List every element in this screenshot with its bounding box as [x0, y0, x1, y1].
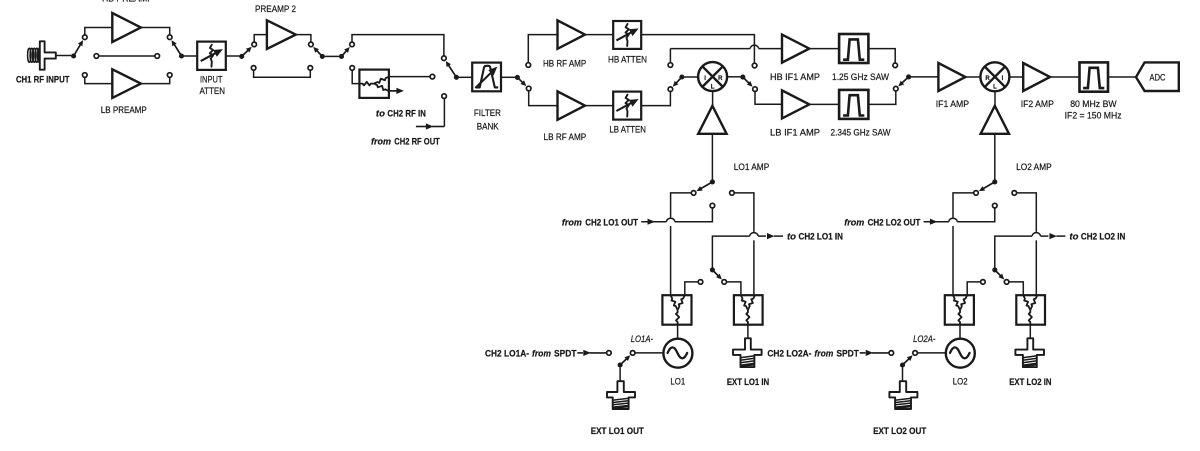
- wire LB IF1 feed: [755, 91, 782, 104]
- switch S2 throw HB: [167, 35, 172, 40]
- ADC converter: [1136, 62, 1179, 91]
- switch S2b arm: [995, 270, 1002, 277]
- switch S1b common node: [710, 267, 715, 272]
- switch S3 throw amp: [252, 42, 257, 47]
- switch S5 throw CH2 split: [350, 66, 355, 71]
- wire S2b to splitter B: [1009, 282, 1023, 295]
- wire preamp2 input: [254, 35, 266, 43]
- wire atten to S3: [226, 55, 240, 57]
- svg-text:LO2A-: LO2A-: [913, 334, 935, 345]
- switch S6 throw main: [442, 56, 447, 61]
- svg-text:INPUT: INPUT: [200, 75, 223, 86]
- svg-text:R: R: [985, 76, 990, 82]
- attenuator HB ATTEN: [613, 21, 641, 49]
- switch S6 throw from CH2: [442, 94, 447, 99]
- wire LB preamp input: [85, 77, 112, 83]
- wire preamp2 output: [296, 35, 311, 43]
- switch S1a throw from CH2: [710, 203, 715, 208]
- switch S10 common node: [906, 74, 911, 79]
- attenuator LB ATTEN: [613, 92, 641, 120]
- amplifier IF1 AMP: [938, 63, 965, 91]
- switch S2a throw to CH2: [1012, 191, 1017, 196]
- wire from CH2 RF OUT riser: [443, 98, 445, 126]
- svg-text:HB ATTEN: HB ATTEN: [608, 55, 647, 66]
- svg-text:SPDT: SPDT: [836, 349, 859, 360]
- amplifier LO1 AMP: [698, 106, 726, 134]
- oscillator LO2: [946, 339, 975, 368]
- wire HB preamp input: [85, 28, 112, 35]
- svg-text:to: to: [787, 232, 796, 243]
- wire HB atten output run: [641, 35, 754, 64]
- wire S1b to splitter B: [727, 282, 741, 295]
- switch S1 arm: [74, 44, 81, 56]
- switch S6 arm: [448, 64, 456, 77]
- wire IF2 amp to SAW3: [1050, 76, 1080, 78]
- switch S2 throw bypass: [155, 54, 160, 59]
- wire main top run to filter switch: [352, 35, 444, 56]
- wire splitter B to EXT LO1 IN: [747, 325, 749, 339]
- wire splitter input: [352, 70, 359, 83]
- wire to CH2 LO2 IN: [995, 236, 1032, 267]
- wire to input atten: [184, 55, 197, 57]
- svg-text:ADC: ADC: [1150, 73, 1166, 84]
- mixer U1 first mixer: [698, 62, 727, 91]
- switch S1 throw bypass: [94, 54, 99, 59]
- svg-text:ATTEN: ATTEN: [199, 86, 225, 97]
- switch S8 throw HB: [668, 63, 673, 68]
- switch S10 arm: [901, 77, 908, 84]
- filter FL3 IF2 SAW: [1080, 62, 1109, 91]
- svg-text:CH1 RF INPUT: CH1 RF INPUT: [16, 74, 70, 85]
- switch S1a arm: [700, 182, 712, 189]
- wire S2b to splitter A: [967, 282, 980, 295]
- arrow from CH2 RF OUT: [416, 126, 427, 128]
- switch S1 common node: [71, 53, 76, 58]
- attenuator INPUT ATTEN: [197, 42, 226, 70]
- wire IF1 amp to mixer2: [965, 76, 980, 78]
- splitter LO1 A: [662, 295, 691, 325]
- wire HB IF1 feed: [669, 49, 671, 63]
- switch S2c common node: [900, 362, 905, 367]
- switch S1 throw LB: [83, 73, 88, 78]
- svg-text:LB IF1 AMP: LB IF1 AMP: [770, 128, 820, 139]
- svg-text:IF2 AMP: IF2 AMP: [1021, 99, 1054, 110]
- wire LB preamp output: [141, 77, 170, 83]
- switch S9 throw HB: [752, 63, 757, 68]
- wire bypass 2: [254, 70, 311, 77]
- arrow to CH2 RF IN: [389, 90, 398, 92]
- switch S1b throw splitter B: [722, 280, 727, 285]
- svg-text:LO1 AMP: LO1 AMP: [734, 162, 770, 173]
- switch S5 arm: [342, 50, 348, 56]
- wire filter bank output: [501, 76, 515, 78]
- wire mixer2 LO port: [994, 91, 996, 105]
- amplifier LO2 AMP: [981, 106, 1009, 134]
- filter FL1 1.25 GHz SAW: [839, 34, 868, 63]
- svg-text:from: from: [371, 136, 391, 147]
- amplifier HB RF AMP: [558, 20, 586, 48]
- svg-text:EXT LO1 IN: EXT LO1 IN: [727, 377, 769, 388]
- switch S4 throw bypass: [308, 66, 313, 71]
- wire HB preamp output: [141, 28, 170, 35]
- switch S2c throw osc: [913, 351, 918, 356]
- wire LO2 internal branch: [953, 193, 974, 218]
- svg-text:LO1: LO1: [670, 376, 685, 387]
- amplifier PREAMP 2: [267, 20, 296, 49]
- arrow CH2 LO1A- from SPDT: [577, 352, 583, 354]
- wire S1c to EXT LO1 OUT: [619, 367, 621, 381]
- switch S2b throw splitter B: [1004, 280, 1009, 285]
- svg-text:LB RF AMP: LB RF AMP: [544, 132, 587, 143]
- switch S1c throw CH2: [607, 351, 612, 356]
- switch S9 arm: [743, 77, 750, 84]
- svg-text:IF2 = 150 MHz: IF2 = 150 MHz: [1065, 111, 1122, 122]
- connector EXT LO2 OUT: [889, 381, 917, 409]
- wire LO1 internal branch: [671, 193, 692, 218]
- svg-text:CH2 LO2 OUT: CH2 LO2 OUT: [868, 218, 921, 229]
- svg-text:LO1A-: LO1A-: [631, 334, 653, 345]
- wire LO2 amp input riser: [994, 134, 996, 180]
- connector J1 CH1 RF INPUT: [28, 48, 31, 62]
- svg-text:CH2 LO1 OUT: CH2 LO1 OUT: [585, 218, 638, 229]
- switch S1c throw osc: [630, 351, 635, 356]
- oscillator LO1: [663, 339, 692, 368]
- wire from CH2 LO2 OUT: [924, 221, 949, 223]
- svg-text:CH2 LO1 IN: CH2 LO1 IN: [799, 232, 844, 243]
- wire S4 to S5: [325, 55, 340, 57]
- wire mixer to S9: [727, 76, 740, 78]
- amplifier IF2 AMP: [1023, 63, 1050, 91]
- wire to filter bank: [459, 76, 473, 78]
- switch S6 throw from splitter: [430, 74, 435, 79]
- svg-text:EXT LO2 OUT: EXT LO2 OUT: [873, 426, 926, 437]
- svg-text:EXT LO1 OUT: EXT LO1 OUT: [591, 426, 644, 437]
- wire LO2 to S2c: [917, 352, 945, 354]
- wire HB amp to atten: [585, 34, 613, 36]
- amplifier LB PREAMP: [112, 69, 141, 98]
- switch S7 common node: [515, 75, 520, 80]
- svg-text:L: L: [711, 84, 715, 90]
- wire LB RF amp input: [529, 91, 558, 106]
- svg-text:IF1 AMP: IF1 AMP: [936, 99, 969, 110]
- splitter LO1 B: [734, 295, 763, 325]
- switch S1c common node: [618, 362, 623, 367]
- svg-text:from: from: [844, 218, 864, 229]
- svg-text:2.345 GHz SAW: 2.345 GHz SAW: [831, 128, 892, 139]
- switch S7 arm: [517, 77, 523, 83]
- wire from CH2 LO1 OUT: [641, 221, 666, 223]
- wire to CH2 LO1 IN: [712, 236, 749, 267]
- wire bypass 1: [99, 55, 155, 57]
- wire LO1 amp input riser: [711, 134, 713, 180]
- splitter LO2 B: [1016, 295, 1045, 325]
- svg-text:to: to: [376, 109, 385, 120]
- switch S9 common node: [740, 75, 745, 80]
- svg-text:from: from: [562, 218, 582, 229]
- amplifier HB IF1 AMP: [782, 35, 809, 63]
- switch S7 throw LB: [526, 86, 531, 91]
- svg-text:CH2 LO1A-: CH2 LO1A-: [485, 349, 529, 360]
- wire SAW2 output: [868, 91, 895, 105]
- wire LO2 to-CH2 branch: [1017, 193, 1037, 232]
- switch S1b throw splitter A: [698, 280, 703, 285]
- splitter CH2 RF power divider: [359, 70, 389, 98]
- wire HB IF1 amp to SAW: [809, 48, 839, 50]
- filter FL2 2.345 GHz SAW: [839, 90, 868, 119]
- switch S3 throw bypass: [251, 66, 256, 71]
- switch S1a throw internal: [691, 191, 696, 196]
- amplifier HB PREAMP: [112, 13, 141, 42]
- filter FILTER BANK: [472, 63, 501, 92]
- switch S1 throw HB: [83, 35, 88, 40]
- connector EXT LO1 IN: [733, 338, 762, 367]
- switch S8 arm: [675, 77, 681, 84]
- wire splitter A to LO2: [959, 325, 961, 339]
- switch S6 common node: [454, 75, 459, 80]
- switch S1c arm: [620, 358, 627, 365]
- svg-text:CH2 RF IN: CH2 RF IN: [387, 109, 426, 120]
- svg-text:80 MHz BW: 80 MHz BW: [1070, 99, 1117, 110]
- wire LB atten to S8: [641, 92, 670, 106]
- switch S2 common node: [179, 53, 184, 58]
- wire LO1 to-CH2 branch: [734, 193, 754, 232]
- amplifier LB RF AMP: [558, 91, 586, 119]
- switch S7 throw HB: [526, 63, 531, 68]
- connector EXT LO1 OUT: [607, 381, 635, 409]
- arrow to CH2 LO2 IN: [1049, 233, 1057, 239]
- wire S2c to EXT LO2 OUT: [902, 367, 904, 381]
- switch S4 arm: [316, 50, 322, 57]
- svg-text:HB IF1 AMP: HB IF1 AMP: [770, 72, 820, 83]
- wire splitter B to EXT LO2 IN: [1029, 325, 1031, 339]
- wire mixer2 to IF2 amp: [1009, 76, 1023, 78]
- svg-text:PREAMP 2: PREAMP 2: [255, 4, 296, 15]
- wire mixer1 LO port: [712, 91, 714, 105]
- wire HB RF amp input: [528, 35, 557, 63]
- arrow to CH2 LO1 IN: [767, 233, 775, 239]
- switch S10 throw HB: [893, 63, 898, 68]
- svg-text:from: from: [814, 349, 833, 360]
- svg-text:L: L: [993, 85, 997, 91]
- wire LB amp to atten: [585, 105, 613, 107]
- svg-text:LB ATTEN: LB ATTEN: [609, 125, 646, 136]
- wire LO1 to S1c: [635, 352, 663, 354]
- switch S2a throw internal: [974, 191, 979, 196]
- switch S1a throw to CH2: [730, 191, 735, 196]
- svg-text:FILTER: FILTER: [474, 108, 501, 119]
- wire S10 to IF1 amp: [911, 76, 938, 78]
- mixer U2 second mixer: [980, 62, 1009, 91]
- wire S8 to mixer: [684, 76, 698, 78]
- svg-text:LB PREAMP: LB PREAMP: [101, 105, 147, 116]
- svg-text:BANK: BANK: [477, 122, 499, 133]
- switch S3 arm: [242, 50, 249, 57]
- switch S2a arm: [982, 182, 994, 189]
- switch S5 common node: [339, 54, 344, 59]
- switch S8 throw LB: [668, 87, 673, 92]
- svg-text:1.25 GHz SAW: 1.25 GHz SAW: [832, 72, 890, 83]
- switch S2c arm: [903, 358, 910, 365]
- switch S8 common node: [679, 74, 684, 79]
- connector EXT LO2 IN: [1015, 338, 1044, 367]
- wire LB IF1 amp to SAW: [809, 103, 839, 105]
- svg-text:SPDT: SPDT: [554, 349, 577, 360]
- switch S2 throw LB: [167, 73, 172, 78]
- wire SAW1 output: [868, 49, 895, 63]
- wire splitter A to LO1: [677, 325, 679, 339]
- switch S10 throw LB: [894, 86, 899, 91]
- wire SAW3 to ADC: [1108, 76, 1136, 78]
- svg-text:LO2 AMP: LO2 AMP: [1016, 162, 1052, 173]
- arrow from CH2 LO2 OUT: [930, 219, 938, 225]
- switch S2b common node: [992, 267, 997, 272]
- svg-text:CH2 RF OUT: CH2 RF OUT: [394, 136, 440, 147]
- switch S2c throw CH2: [889, 351, 894, 356]
- switch S5 throw main: [350, 42, 355, 47]
- svg-text:EXT LO2 IN: EXT LO2 IN: [1009, 377, 1051, 388]
- switch S2a common node: [992, 179, 997, 184]
- arrow from CH2 LO1 OUT: [648, 219, 656, 225]
- switch S2b throw splitter A: [981, 280, 986, 285]
- splitter LO2 A: [945, 295, 974, 325]
- switch S4 throw amp: [309, 42, 314, 47]
- switch S4 common node: [320, 54, 325, 59]
- wire S1b to splitter A: [685, 282, 698, 295]
- svg-text:to: to: [1069, 232, 1078, 243]
- svg-text:HB RF AMP: HB RF AMP: [543, 59, 586, 70]
- amplifier LB IF1 AMP: [782, 90, 809, 118]
- switch S2a throw from CH2: [993, 203, 998, 208]
- switch S9 throw LB: [753, 87, 758, 92]
- arrow CH2 LO2A- from SPDT: [860, 352, 866, 354]
- switch S2 arm: [174, 43, 182, 56]
- svg-text:CH2 LO2 IN: CH2 LO2 IN: [1081, 232, 1126, 243]
- switch S1b arm: [712, 270, 719, 277]
- svg-text:LO2: LO2: [953, 376, 968, 387]
- switch S3 common node: [239, 54, 244, 59]
- switch S1a common node: [710, 179, 715, 184]
- svg-text:R: R: [718, 76, 723, 82]
- svg-text:HB PREAMP: HB PREAMP: [102, 0, 153, 5]
- svg-text:from: from: [532, 349, 551, 360]
- wire splitter top output: [389, 76, 430, 78]
- svg-text:CH2 LO2A-: CH2 LO2A-: [767, 349, 811, 360]
